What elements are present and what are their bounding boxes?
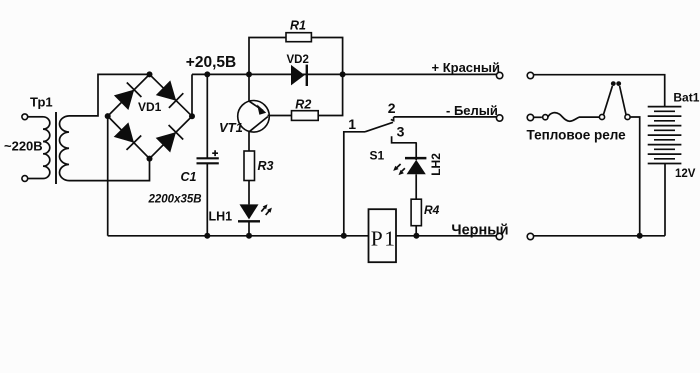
- wire red right: [534, 75, 665, 107]
- LED LH1 emission arrows: [261, 204, 272, 215]
- switch S1 common wire: [344, 132, 365, 236]
- wire R2 to +rail: [318, 74, 342, 115]
- svg-text:R4: R4: [424, 203, 440, 217]
- resistor R1: [286, 33, 311, 42]
- transformer Tp1 core: [55, 112, 57, 184]
- terminal black right: [527, 233, 533, 239]
- svg-text:LH2: LH2: [429, 153, 443, 176]
- diode VD2: [291, 65, 307, 86]
- wire VT1 base to R2: [268, 115, 292, 117]
- svg-text:Р: Р: [371, 227, 383, 251]
- svg-text:R2: R2: [295, 97, 311, 111]
- transformer Tp1 secondary winding: [59, 116, 69, 181]
- thermal relay left contact circle: [599, 114, 604, 119]
- node relay ground: [637, 233, 643, 239]
- terminal + red left: [496, 72, 502, 78]
- wire ground rail left segment: [108, 235, 497, 237]
- svg-text:Bat1: Bat1: [673, 91, 699, 105]
- svg-text:C1: C1: [181, 170, 197, 184]
- thermal relay right contact circle: [625, 114, 630, 119]
- diode VD1 lower-left: [114, 122, 142, 149]
- terminal + red right: [527, 72, 533, 78]
- bridge rectifier VD1 outline: [108, 74, 192, 158]
- transformer Tp1 terminal lower: [22, 176, 28, 182]
- wire R4 to ground rail: [415, 226, 417, 236]
- thermal relay contact dot right: [616, 81, 621, 86]
- resistor R1 branch right wire: [311, 38, 342, 75]
- node LH1 ground: [246, 233, 252, 239]
- node bridge top: [147, 71, 153, 77]
- diode VD1 upper-right: [156, 80, 184, 108]
- svg-text:1: 1: [348, 116, 356, 132]
- svg-text:2: 2: [388, 100, 396, 116]
- switch S1 contact 3: [392, 136, 417, 143]
- relay coil P1: [369, 209, 397, 262]
- diode VD1 upper-left: [114, 83, 141, 111]
- node bridge left: [105, 113, 111, 119]
- capacitor C1: [197, 74, 219, 235]
- node R4 ground: [413, 233, 419, 239]
- svg-text:Черный: Черный: [451, 223, 508, 239]
- node bridge bottom: [147, 156, 153, 162]
- terminal - white right a: [527, 114, 533, 120]
- svg-text:VD1: VD1: [138, 100, 162, 114]
- transistor VT1: [238, 74, 270, 151]
- node R1/VT1 tap: [246, 71, 252, 77]
- svg-text:S1: S1: [370, 148, 385, 162]
- thermal relay contact dot left: [611, 81, 616, 86]
- switch S1 blade: [365, 122, 393, 132]
- wire white line: [394, 116, 497, 118]
- node C1 tap: [204, 71, 210, 77]
- svg-text:2200x35В: 2200x35В: [148, 194, 202, 206]
- svg-text:~220В: ~220В: [4, 139, 43, 154]
- node S1 ground: [341, 233, 347, 239]
- terminal - white right b: [543, 115, 548, 120]
- switch S1 contact 2: [391, 117, 394, 121]
- LED LH2 emission arrows: [393, 164, 405, 175]
- diode VD1 lower-right: [156, 125, 184, 153]
- svg-text:+20,5В: +20,5В: [186, 54, 236, 71]
- transformer Tp1 terminal upper: [22, 114, 28, 120]
- LED LH1: [238, 181, 260, 236]
- svg-text:3: 3: [397, 124, 405, 140]
- resistor R1 branch left wire: [249, 38, 286, 75]
- wire +20.5V rail: [192, 73, 496, 75]
- terminal black left: [496, 233, 502, 239]
- svg-text:12V: 12V: [675, 168, 696, 180]
- wire primary top: [28, 116, 43, 118]
- wire secondary bottom to bridge AC2: [69, 160, 150, 181]
- svg-text:1: 1: [384, 227, 395, 251]
- thermal relay bimetal right arm: [620, 86, 626, 115]
- svg-text:R1: R1: [290, 19, 306, 33]
- wire between white terminals: [534, 116, 542, 118]
- wire relay to battery minus: [631, 117, 640, 236]
- wire primary bottom: [28, 178, 43, 180]
- battery Bat1 cells: [648, 107, 682, 164]
- svg-text:Тепловое реле: Тепловое реле: [527, 128, 627, 143]
- thermal relay wavy wire: [548, 113, 600, 122]
- svg-text:R3: R3: [258, 159, 274, 173]
- resistor R3: [244, 151, 255, 181]
- wire black right segment: [534, 235, 665, 237]
- svg-text:- Белый: - Белый: [446, 103, 498, 118]
- resistor R2: [292, 111, 319, 121]
- thermal relay bimetal left arm: [604, 86, 613, 115]
- svg-text:Тр1: Тр1: [30, 95, 53, 110]
- node C1 ground: [204, 233, 210, 239]
- wire battery bottom lead: [664, 164, 666, 236]
- wire bridge minus to ground rail: [107, 116, 109, 236]
- transformer Tp1 primary winding: [43, 117, 50, 179]
- svg-text:VT1: VT1: [219, 120, 243, 135]
- svg-text:VD2: VD2: [287, 54, 309, 66]
- svg-text:+ Красный: + Красный: [432, 60, 501, 75]
- node R1/R2 tap: [340, 71, 346, 77]
- wire bridge plus up to +rail: [191, 74, 193, 116]
- svg-text:LH1: LH1: [209, 210, 233, 224]
- terminal - white left: [496, 115, 502, 121]
- resistor R4: [411, 199, 421, 226]
- LED LH2: [405, 143, 426, 199]
- wire secondary top to bridge AC1: [69, 74, 148, 116]
- node bridge right: [189, 113, 195, 119]
